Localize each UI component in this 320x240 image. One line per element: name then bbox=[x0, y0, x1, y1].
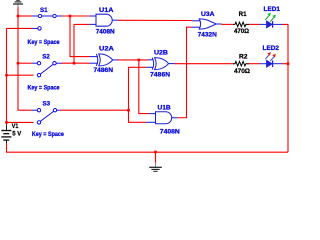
wire U2A out branch down to U1B input A bbox=[139, 60, 149, 114]
node junction bottom rail / ground bbox=[154, 151, 157, 154]
switch S2 (down position) bbox=[32, 62, 62, 77]
LED2 emission arrows (red) bbox=[265, 52, 276, 61]
wire S1 low stub bbox=[7, 27, 33, 29]
wire S1 out to U1A input A bbox=[62, 15, 89, 17]
svg-text:U2A: U2A bbox=[99, 46, 114, 53]
svg-text:470Ω: 470Ω bbox=[234, 68, 251, 75]
wire R2 to LED2 bbox=[249, 63, 260, 65]
wire U1A out to U3A input A bbox=[118, 19, 192, 21]
wire rail 1 (top ground to S3) vertical x=18 bbox=[18, 7, 32, 110]
svg-text:R2: R2 bbox=[239, 53, 248, 60]
LED2 (diode + cathode bar) bbox=[260, 60, 283, 67]
wire R1 to LED1 bbox=[249, 23, 260, 25]
wire S1 branch down to U2A input A bbox=[70, 16, 90, 57]
svg-text:7408N: 7408N bbox=[160, 129, 180, 136]
wire S1 feed bbox=[18, 15, 32, 17]
ground GND bottom bbox=[149, 163, 162, 172]
svg-text:Key = Space: Key = Space bbox=[32, 131, 64, 138]
svg-text:Key = Space: Key = Space bbox=[28, 39, 60, 46]
node junction rail2/S2 stub bbox=[5, 74, 8, 77]
svg-text:7408N: 7408N bbox=[96, 29, 115, 36]
svg-text:Key = Space: Key = Space bbox=[28, 85, 60, 92]
wire S2 out to U2A input B bbox=[62, 62, 90, 64]
wire ground stub bbox=[155, 152, 157, 163]
svg-text:470Ω: 470Ω bbox=[234, 28, 249, 35]
svg-text:U3A: U3A bbox=[201, 11, 215, 18]
node junction LED2/right rail bbox=[287, 62, 290, 65]
node junction S3 branch bbox=[127, 109, 130, 112]
xor gate U2A (7486N) bbox=[90, 54, 119, 66]
svg-text:U1A: U1A bbox=[99, 7, 114, 14]
wire S2 branch up to U1A input B bbox=[74, 24, 89, 63]
resistor R2 470ohm bbox=[233, 61, 250, 66]
svg-text:7486N: 7486N bbox=[94, 67, 114, 74]
svg-text:7486N: 7486N bbox=[150, 72, 170, 79]
xor gate U2B (7486N) bbox=[146, 58, 175, 70]
svg-text:S2: S2 bbox=[42, 54, 50, 61]
svg-text:S3: S3 bbox=[43, 101, 51, 108]
op-amp U1B pins (AND gate 7408N) bbox=[146, 112, 178, 124]
wire rail 2 (battery + to switch low throws) x=6.5 bbox=[6, 28, 8, 125]
LED1 (diode + cathode bar) bbox=[260, 21, 283, 28]
svg-text:U1B: U1B bbox=[158, 104, 171, 111]
svg-text:R1: R1 bbox=[239, 11, 247, 18]
switch S1 (closed up position) bbox=[32, 14, 63, 30]
svg-text:LED2: LED2 bbox=[263, 45, 280, 52]
node junction rail1/S1 bbox=[17, 15, 20, 18]
LED1 emission arrows (green) bbox=[265, 13, 276, 22]
wire S3 low stub bbox=[7, 121, 34, 123]
op-amp U1A pins 1,2 (AND gate 7408N) bbox=[89, 14, 118, 26]
wire S3 out row bbox=[60, 109, 129, 111]
switch S3 (down position) bbox=[32, 109, 61, 125]
wire S2 feed bbox=[18, 62, 32, 64]
node junction rail1/S2 bbox=[17, 62, 20, 65]
resistor R1 470ohm bbox=[233, 22, 250, 27]
wire U2B out to R2 bbox=[175, 63, 234, 65]
wire S2 low stub bbox=[7, 74, 34, 76]
node junction S1 branch bbox=[69, 15, 72, 18]
svg-text:V1: V1 bbox=[12, 123, 19, 130]
wire S3 branch down to U1B input B bbox=[129, 110, 146, 122]
wire U1B out up to U3A input B bbox=[177, 27, 191, 118]
node junction U2A out branch bbox=[138, 59, 141, 62]
wire LED1 to right rail bbox=[282, 24, 288, 152]
svg-text:5 V: 5 V bbox=[12, 131, 21, 138]
or gate U3A (7432N) bbox=[192, 19, 222, 29]
svg-text:U2B: U2B bbox=[154, 50, 168, 57]
wire U2A out to U2B input A bbox=[118, 59, 148, 61]
node junction S2 branch bbox=[73, 62, 76, 65]
wire LED2 to right rail bbox=[282, 63, 288, 65]
svg-text:S1: S1 bbox=[40, 7, 48, 14]
wire S3 branch up to U2B input B bbox=[129, 67, 147, 110]
ground GND top (rotated, above rail 1) bbox=[13, 0, 23, 7]
battery V1 5V bbox=[1, 125, 11, 143]
svg-text:LED1: LED1 bbox=[264, 6, 281, 13]
wire U3A out to R1 bbox=[222, 23, 234, 25]
svg-text:7432N: 7432N bbox=[198, 31, 217, 38]
wire battery minus to bottom rail bbox=[7, 143, 289, 152]
node junction rail2/S3 stub bbox=[5, 121, 8, 124]
